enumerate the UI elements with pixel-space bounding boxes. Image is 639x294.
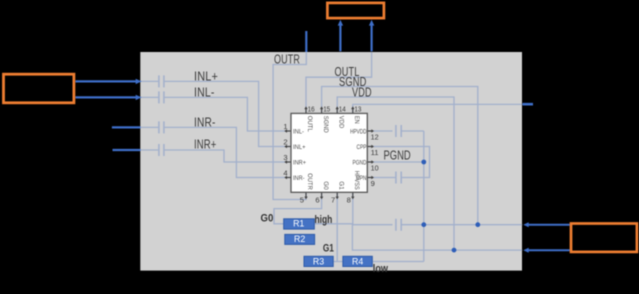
svg-text:R3: R3 [313,256,324,266]
callout box right [571,224,637,252]
svg-text:VDD: VDD [337,116,343,129]
pin stub 15 SGND [321,109,323,114]
junction dot SGND-GND [475,222,480,227]
svg-text:R1: R1 [293,219,304,229]
svg-text:VDD: VDD [352,86,372,100]
arrow GND from supply [528,224,570,226]
svg-text:16: 16 [308,105,315,114]
resistor R3 [304,256,333,266]
svg-text:OUTR: OUTR [274,53,300,67]
svg-text:PGND: PGND [353,160,368,166]
wire OUTL net [306,52,372,113]
svg-text:9: 9 [371,179,375,188]
pin stub 2 INL+ [287,146,292,148]
capacitor INL+ [159,75,164,87]
capacitor HPVDD [396,125,401,137]
wire INL+ input [140,81,291,146]
pin stub 10 PGND [367,161,372,163]
svg-text:7: 7 [331,195,335,204]
pin stub 16 OUTL [305,109,307,114]
svg-text:G1: G1 [337,181,343,190]
wire CPP loop [367,147,429,178]
wire INL- input [140,97,291,131]
op-amp U1 chip body [291,113,367,192]
schematic panel [140,52,522,271]
wire PGND pin [367,161,424,163]
arrow to jack 1 [339,26,341,52]
wire PGND vertical rail [373,131,424,262]
arrow to jack 2 OUTL [371,26,373,52]
svg-text:PGND: PGND [384,148,411,163]
pin stub 6 G0 [321,192,323,197]
wire VDD net [337,97,454,250]
pin stub 9 CPN [367,177,372,179]
svg-text:R4: R4 [352,256,363,266]
callout box top [327,3,384,18]
svg-text:INR+: INR+ [194,138,217,152]
capacitor CPP-CPN [396,172,401,184]
svg-text:SGND: SGND [322,116,328,134]
pin stub 13 EN [352,109,354,114]
wire stub OUTR top [305,31,307,52]
svg-text:10: 10 [371,163,379,172]
pin stub 11 CPP [367,146,372,148]
svg-text:3: 3 [283,153,287,162]
callout box left [4,74,74,103]
wire stub INR+ [113,149,141,151]
svg-text:INL-: INL- [194,85,215,99]
svg-text:12: 12 [371,132,379,141]
wire G1 net [333,192,343,261]
junction dot GND-PGND [421,222,426,227]
svg-text:low: low [373,263,388,275]
wire HPVDD to cap [367,130,424,132]
capacitor INL- [159,91,164,103]
pin stub 12 HPVDD [367,130,372,132]
svg-text:13: 13 [354,105,361,114]
svg-text:2: 2 [283,137,287,146]
svg-text:11: 11 [371,148,379,157]
wire high net R1 to VDD [314,224,522,250]
svg-text:INL+: INL+ [194,70,218,84]
arrow INL+ [76,80,137,82]
svg-text:R2: R2 [294,234,305,244]
resistor R4 [343,256,372,266]
svg-text:INL-: INL- [293,129,304,135]
svg-text:INR-: INR- [293,176,305,182]
arrow VDD from supply [528,249,570,251]
svg-text:HPVSS: HPVSS [353,171,359,190]
junction dot VDD-high [452,248,457,253]
wire CPN to cap [367,177,395,179]
svg-text:G0: G0 [322,181,328,190]
capacitor INR+ [159,144,164,156]
svg-text:4: 4 [283,168,287,177]
pin stub 7 G1 [336,192,338,197]
resistor R1 [284,219,315,230]
wire G0 net [274,192,322,224]
wire GND bus [401,224,523,226]
svg-text:6: 6 [315,195,319,204]
wire EN net [353,104,522,113]
pin stub 14 VDD [336,109,338,114]
arrow INL- [76,96,137,98]
svg-text:G0: G0 [261,213,274,225]
svg-text:high: high [315,214,333,226]
svg-text:EN: EN [353,116,359,124]
wire HPVSS to gnd cap [353,192,393,224]
pin stub 3 INR+ [287,161,292,163]
svg-text:HPVDD: HPVDD [350,129,367,135]
svg-text:OUTL: OUTL [306,116,312,133]
pin stub 1 INL- [287,130,292,132]
wire INR+ input [140,150,291,162]
junction dot PGND [421,160,426,165]
svg-text:8: 8 [347,195,351,204]
svg-text:14: 14 [339,105,346,114]
svg-text:G1: G1 [323,242,334,254]
wire stub INR- [112,126,140,128]
svg-text:15: 15 [323,105,330,114]
svg-text:INR+: INR+ [293,160,306,166]
wire stub EN right [523,103,534,106]
wire INR- input [140,127,291,177]
svg-text:1: 1 [283,122,287,131]
svg-text:INR-: INR- [194,115,216,129]
wire OUTR net [273,52,306,199]
svg-text:OUTR: OUTR [306,173,312,190]
svg-text:5: 5 [300,195,304,204]
svg-text:CPP: CPP [357,145,367,151]
capacitor HPVSS [396,219,401,231]
resistor R2 [285,234,315,244]
svg-text:INL+: INL+ [293,145,306,151]
capacitor INR- [159,121,164,133]
wire SGND net [322,87,478,225]
pin stub 8 HPVSS [352,192,354,197]
pin stub 5 OUTR [305,192,307,197]
pin stub 4 INR- [287,177,292,179]
